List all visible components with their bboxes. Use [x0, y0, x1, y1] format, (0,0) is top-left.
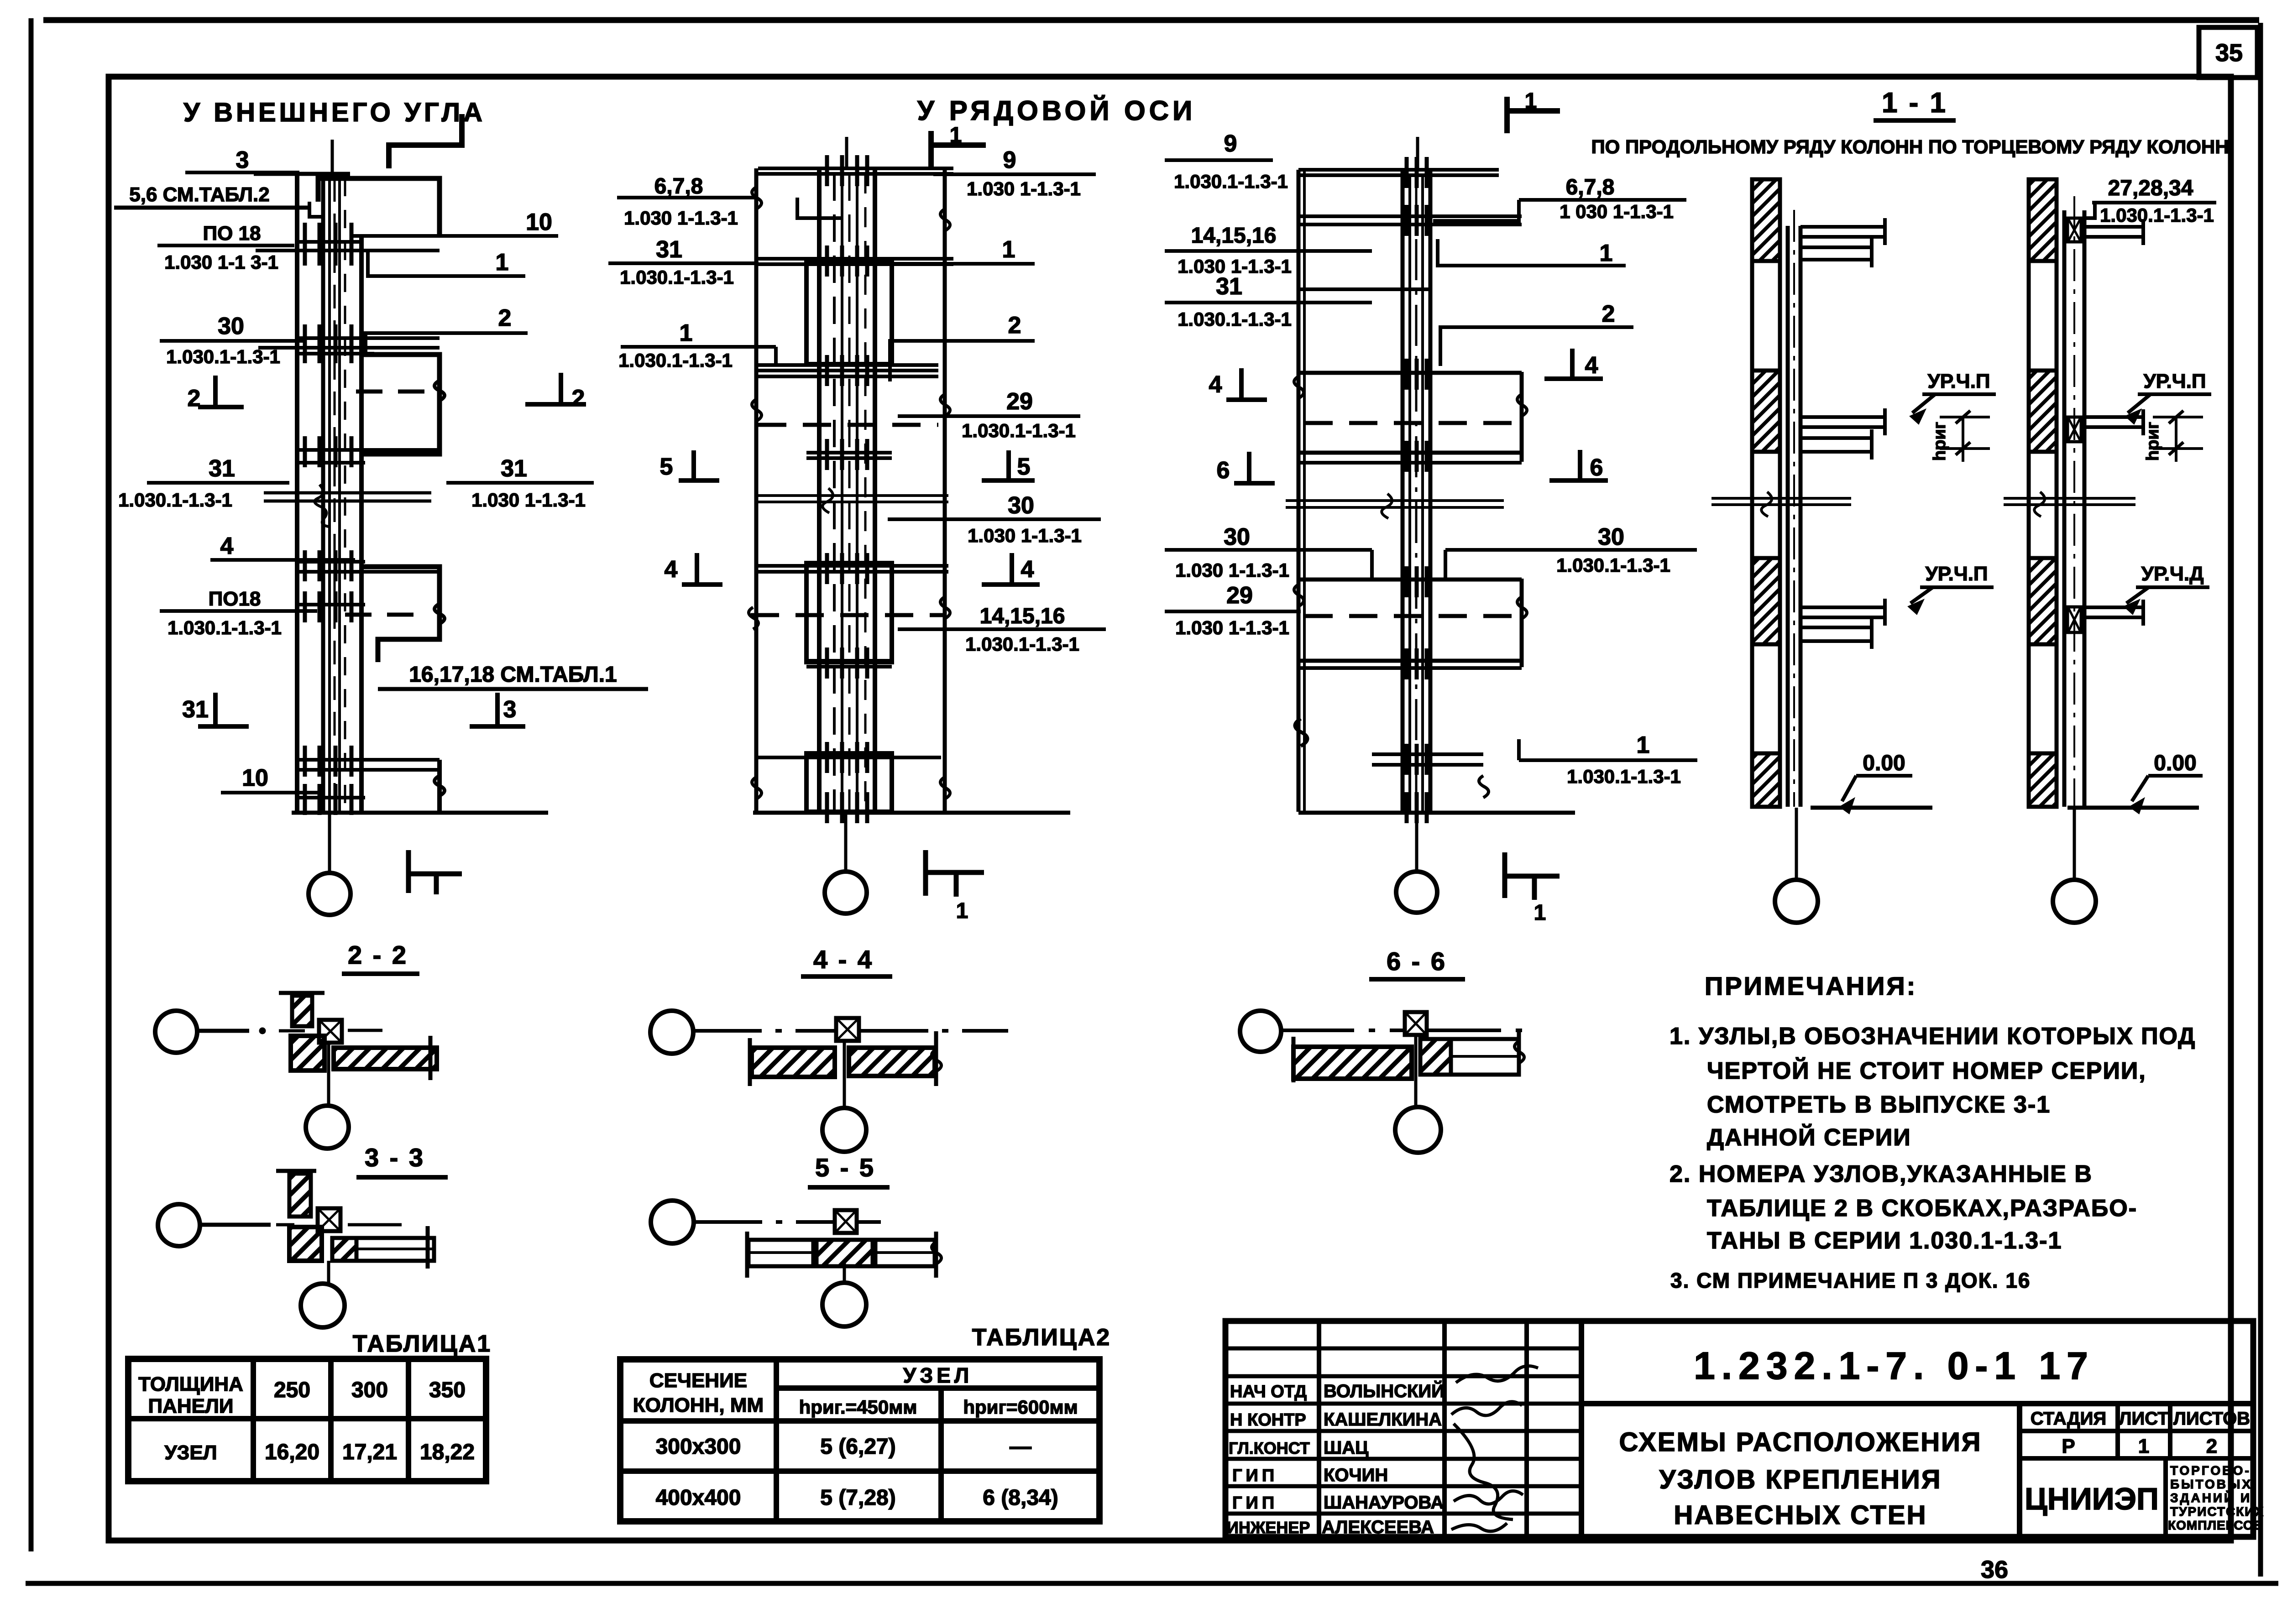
slab level B S1: [1800, 408, 1887, 460]
svg-text:КОЛОНН, ММ: КОЛОНН, ММ: [633, 1394, 764, 1416]
svg-text:1.030.1-1.3-1: 1.030.1-1.3-1: [620, 266, 734, 288]
column joint ticks: [305, 155, 1427, 823]
base line S1: [1811, 806, 1932, 810]
svg-text:УЗЕЛ: УЗЕЛ: [903, 1363, 973, 1387]
svg-text:350: 350: [429, 1378, 466, 1402]
axis bubble S1: [1775, 880, 1818, 923]
wall panel mid right P2: [364, 355, 440, 454]
svg-text:АЛЕКСЕЕВА: АЛЕКСЕЕВА: [1322, 1517, 1434, 1537]
leader 30 left D3: [1165, 524, 1372, 581]
svg-text:НАЧ ОТД: НАЧ ОТД: [1230, 1382, 1307, 1401]
svg-text:9: 9: [1224, 131, 1237, 157]
svg-text:18,22: 18,22: [420, 1440, 475, 1464]
break mark on P3 edge: [434, 604, 445, 624]
svg-text:ИНЖЕНЕР: ИНЖЕНЕР: [1227, 1518, 1310, 1537]
svg-text:6: 6: [1590, 454, 1603, 481]
axis bubble 5-5 bottom: [822, 1283, 866, 1326]
svg-text:4: 4: [1209, 371, 1222, 398]
svg-text:1: 1: [680, 320, 693, 346]
svg-text:14,15,16: 14,15,16: [1191, 224, 1277, 248]
svg-text:1.030.1-1.3-1: 1.030.1-1.3-1: [2100, 204, 2214, 226]
section mark 4 right D3: [1544, 349, 1603, 379]
bottom band D3: [1372, 752, 1483, 756]
leader 6,7,8 left: [617, 174, 842, 229]
wall panel hatched S1a: [1752, 179, 1780, 261]
band under block B2: [806, 659, 892, 663]
leader 1 right: [888, 236, 1035, 264]
column K1 left face: [295, 172, 299, 813]
svg-text:ПО18: ПО18: [209, 588, 261, 610]
svg-text:2. НОМЕРА УЗЛОВ,УКАЗАННЫЕ В: 2. НОМЕРА УЗЛОВ,УКАЗАННЫЕ В: [1670, 1161, 2093, 1187]
column K3 core: [1408, 173, 1411, 812]
svg-text:У ВНЕШНЕГО УГЛА: У ВНЕШНЕГО УГЛА: [183, 98, 486, 127]
svg-text:ПРИМЕЧАНИЯ:: ПРИМЕЧАНИЯ:: [1705, 971, 1917, 1000]
column S1 axis dash-dot: [1793, 210, 1795, 807]
panel end tick 2-2: [429, 1036, 433, 1080]
svg-text:31: 31: [656, 236, 682, 263]
slab stub level A S2: [2084, 219, 2145, 245]
leader 2 right D3: [1440, 301, 1633, 366]
label 2-2: [342, 940, 419, 974]
column K1 inner left face: [321, 172, 325, 813]
svg-text:6 (8,34): 6 (8,34): [983, 1486, 1058, 1510]
svg-text:17,21: 17,21: [342, 1440, 397, 1464]
label 5-5: [808, 1153, 890, 1187]
panel bar 5-5 hatched middle: [816, 1240, 873, 1266]
svg-text:16,17,18 СМ.ТАБЛ.1: 16,17,18 СМ.ТАБЛ.1: [409, 663, 617, 687]
axis break double line: [758, 494, 948, 497]
label 4-4: [801, 945, 892, 976]
svg-text:ШАНАУРОВА: ШАНАУРОВА: [1324, 1493, 1444, 1513]
svg-text:ЛИСТ: ЛИСТ: [2119, 1409, 2168, 1429]
node square 4-4: [836, 1018, 859, 1041]
label 16,17,18 см.табл.1: [378, 663, 648, 689]
leader 30 right D3: [1445, 524, 1697, 579]
svg-text:5: 5: [660, 454, 673, 480]
leader 14,15,16 right: [898, 604, 1106, 655]
panel bar 3-3 hatched part: [332, 1238, 356, 1261]
svg-text:10: 10: [242, 765, 268, 791]
panel bar 3-3 outline part: [356, 1238, 434, 1261]
label УР.Ч.Д lower right: [2124, 563, 2209, 615]
svg-text:ПО 18: ПО 18: [203, 222, 261, 245]
node square 3-3: [318, 1208, 340, 1231]
stem down 6-6: [1414, 1035, 1418, 1106]
panel bar 6-6 right hatched small: [1420, 1039, 1451, 1075]
label 5,6 см.табл.2: [114, 183, 309, 208]
svg-text:1.030 1-1.3-1: 1.030 1-1.3-1: [1175, 617, 1289, 638]
axis break line S2: [2004, 492, 2135, 517]
slab band level 4: [295, 560, 365, 564]
axis bubble 6-6 bottom: [1395, 1107, 1441, 1153]
svg-text:hриг.=450мм: hриг.=450мм: [799, 1396, 917, 1418]
svg-text:ШАЦ: ШАЦ: [1324, 1438, 1368, 1458]
band level 3: [758, 564, 948, 568]
axis leader 3-3: [200, 1223, 402, 1227]
wall panel hatched S1c: [1752, 558, 1780, 644]
frame outer right border: [2258, 23, 2263, 1577]
svg-text:29: 29: [1226, 582, 1253, 609]
svg-text:1.232.1-7. 0-1 17: 1.232.1-7. 0-1 17: [1694, 1344, 2094, 1387]
wide panel block B1: [806, 263, 892, 364]
band level 2: [758, 363, 938, 367]
end ticks 5-5: [745, 1232, 749, 1278]
end ticks 4-4: [748, 1038, 752, 1086]
dashed joint in block 2: [1304, 614, 1517, 618]
svg-text:ЗДАНИЙ И: ЗДАНИЙ И: [2170, 1490, 2251, 1505]
leader 14,15,16 left D3: [1165, 224, 1372, 277]
big block 1 D3: [1298, 371, 1522, 375]
svg-text:НАВЕСНЫХ СТЕН: НАВЕСНЫХ СТЕН: [1674, 1500, 1927, 1530]
wide panel block B2: [806, 563, 892, 662]
axis bubble 2-2 bottom: [306, 1106, 349, 1149]
column K2 core: [833, 173, 836, 812]
break mark on P2 edge: [434, 381, 445, 401]
panel face left long D3: [1297, 170, 1301, 812]
section mark 5 right: [982, 450, 1035, 480]
axis stem to bubble: [328, 813, 331, 873]
svg-text:4: 4: [1021, 556, 1034, 583]
svg-text:КОЧИН: КОЧИН: [1324, 1465, 1388, 1485]
svg-text:УР.Ч.П: УР.Ч.П: [2143, 370, 2206, 392]
elevation 0.00 left: [1839, 751, 1912, 814]
leader 9 left D3: [1165, 131, 1288, 192]
break mark bottom: [434, 776, 445, 796]
svg-text:31: 31: [1216, 273, 1242, 300]
svg-text:1.030.1-1.3-1: 1.030.1-1.3-1: [1556, 554, 1670, 576]
svg-text:30: 30: [1224, 524, 1250, 550]
svg-text:1.030.1-1.3-1: 1.030.1-1.3-1: [618, 350, 733, 371]
svg-text:ТАБЛИЦЕ 2 В СКОБКАХ,РАЗРАБО-: ТАБЛИЦЕ 2 В СКОБКАХ,РАЗРАБО-: [1707, 1195, 2137, 1222]
svg-text:6: 6: [1217, 457, 1230, 484]
node square 2-2: [319, 1020, 342, 1043]
svg-text:УР.Ч.П: УР.Ч.П: [1927, 370, 1990, 392]
node square 5-5: [835, 1210, 857, 1233]
axis break line S1: [1711, 492, 1851, 517]
svg-text:29: 29: [1006, 388, 1033, 415]
svg-text:2: 2: [498, 305, 512, 331]
svg-text:СТАДИЯ: СТАДИЯ: [2031, 1409, 2106, 1429]
slab band level 2: [295, 336, 440, 340]
wall stub vertical 3-3: [276, 1171, 316, 1217]
end ticks 6-6: [1292, 1037, 1296, 1082]
slab band level 3: [295, 448, 440, 452]
axis tick top D3: [1416, 137, 1419, 171]
label 31 left: [118, 455, 289, 511]
svg-text:1.030 1-1.3-1: 1.030 1-1.3-1: [624, 207, 738, 229]
slab stub level C S2: [2084, 600, 2145, 626]
leader 10 lower: [221, 765, 319, 793]
svg-text:3: 3: [503, 696, 517, 723]
node square 6-6: [1405, 1012, 1427, 1035]
svg-text:УЗЛОВ КРЕПЛЕНИЯ: УЗЛОВ КРЕПЛЕНИЯ: [1659, 1465, 1942, 1494]
leader 3: [185, 147, 299, 173]
svg-text:31: 31: [182, 696, 209, 723]
panel bar 2-2: [334, 1048, 437, 1069]
svg-text:1: 1: [1600, 240, 1613, 266]
svg-text:ДАННОЙ СЕРИИ: ДАННОЙ СЕРИИ: [1707, 1124, 1911, 1151]
svg-text:КОМПЛЕКСОВ: КОМПЛЕКСОВ: [2168, 1518, 2263, 1532]
label 30 left: [160, 313, 304, 367]
stem down 2-2: [327, 1043, 330, 1106]
axis stem S1: [1795, 808, 1798, 880]
svg-text:2: 2: [1008, 312, 1021, 339]
svg-text:1.030.1-1.3-1: 1.030.1-1.3-1: [962, 420, 1076, 441]
column K3 faces: [1401, 170, 1405, 812]
leader 31 left D3: [1165, 273, 1372, 330]
panel face left long: [754, 168, 759, 812]
base line D2: [753, 811, 1070, 815]
axis line 5-5: [694, 1220, 881, 1224]
slab line under P3: [295, 603, 365, 606]
dashed joint line: [758, 423, 938, 427]
label 31 right: [446, 455, 594, 511]
svg-text:hриг=600мм: hриг=600мм: [963, 1396, 1078, 1418]
band level 1 D3: [1298, 214, 1522, 218]
wall panel top right P1: [318, 178, 440, 235]
svg-text:2: 2: [1602, 301, 1615, 327]
svg-text:1.030 1-1.3-1: 1.030 1-1.3-1: [968, 525, 1082, 546]
bottom panel edge: [437, 760, 442, 812]
wall strip outline S2: [2029, 179, 2057, 807]
frame outer bottom border: [26, 1581, 2278, 1586]
panel face right long: [943, 168, 947, 812]
svg-text:5 (6,27): 5 (6,27): [820, 1435, 895, 1459]
svg-text:14,15,16: 14,15,16: [980, 604, 1065, 628]
svg-text:1: 1: [950, 123, 962, 147]
svg-text:1 - 1: 1 - 1: [1882, 87, 1947, 119]
base line S2: [2067, 806, 2199, 810]
svg-text:10: 10: [526, 209, 552, 235]
svg-text:2 - 2: 2 - 2: [348, 940, 408, 969]
anchor detail top S2: [2067, 218, 2081, 242]
svg-text:ЦНИИЭП: ЦНИИЭП: [2025, 1482, 2159, 1516]
panel bar 4-4 left: [752, 1048, 835, 1077]
svg-text:1.030.1-1.3-1: 1.030.1-1.3-1: [167, 617, 282, 638]
wall panel lower right P3: [364, 567, 440, 662]
svg-text:300х300: 300х300: [656, 1435, 741, 1459]
svg-text:ГИП: ГИП: [1232, 1466, 1278, 1485]
svg-text:4: 4: [665, 556, 678, 583]
leader 2 right: [890, 312, 1035, 381]
svg-text:4: 4: [1585, 352, 1598, 379]
svg-text:1: 1: [1002, 236, 1015, 263]
leader 30 right: [888, 492, 1101, 546]
wall panel hatched S2d: [2029, 753, 2057, 807]
svg-text:5,6 СМ.ТАБЛ.2: 5,6 СМ.ТАБЛ.2: [129, 183, 269, 206]
svg-text:ТОЛЩИНА: ТОЛЩИНА: [138, 1373, 243, 1395]
anchor detail low S2: [2067, 607, 2081, 632]
base line D3: [1298, 811, 1575, 815]
section flag bottom D1: [408, 850, 462, 894]
panel bar 6-6 right outline: [1451, 1039, 1519, 1075]
svg-text:3. СМ ПРИМЕЧАНИЕ П 3 ДОК. 16: 3. СМ ПРИМЕЧАНИЕ П 3 ДОК. 16: [1670, 1269, 2031, 1292]
svg-text:5: 5: [1017, 454, 1031, 480]
stem down 5-5: [843, 1262, 846, 1284]
band level 4: [758, 756, 941, 759]
leader 29 right: [898, 388, 1080, 441]
svg-text:0.00: 0.00: [1863, 751, 1905, 775]
axis leader 2-2: [197, 1028, 382, 1034]
svg-text:6,7,8: 6,7,8: [1566, 175, 1615, 199]
leader 1 left: [618, 320, 776, 371]
section mark 2 left: [188, 376, 244, 412]
short band 31 level: [1298, 287, 1430, 291]
axis bubble 6-6 left: [1240, 1011, 1281, 1052]
label 3-3: [356, 1143, 448, 1177]
svg-text:1.030.1-1.3-1: 1.030.1-1.3-1: [965, 633, 1079, 655]
leader 29 left D3: [1165, 582, 1301, 638]
column block 2-2: [291, 1036, 325, 1070]
section mark 6 right D3: [1549, 450, 1608, 481]
svg-text:ПАНЕЛИ: ПАНЕЛИ: [148, 1395, 233, 1417]
hand squiggle at joint: [314, 485, 329, 527]
axis bubble D1: [309, 873, 351, 915]
svg-text:1 030 1-1.3-1: 1 030 1-1.3-1: [1560, 201, 1674, 222]
section flag top D1: [389, 114, 462, 168]
svg-text:ЛИСТОВ: ЛИСТОВ: [2173, 1409, 2250, 1429]
axis bubble D2: [825, 872, 867, 914]
svg-text:4 - 4: 4 - 4: [813, 945, 874, 974]
svg-text:УЗЕЛ: УЗЕЛ: [164, 1441, 217, 1464]
svg-text:1.030.1-1.3-1: 1.030.1-1.3-1: [1567, 766, 1681, 787]
leader 4: [210, 533, 355, 560]
svg-text:1.030 1-1.3-1: 1.030 1-1.3-1: [471, 489, 586, 511]
label ПО 18 upper: [157, 222, 294, 273]
svg-text:4: 4: [220, 533, 234, 559]
panel end tick 3-3: [426, 1226, 430, 1269]
svg-text:30: 30: [218, 313, 244, 339]
axis bubble S2: [2053, 880, 2096, 923]
label 27,28,34: [2085, 176, 2216, 226]
svg-text:300: 300: [351, 1378, 388, 1402]
column S1 faces: [1786, 226, 1790, 807]
panel bar 5-5 right outline: [875, 1240, 935, 1266]
heading: 1-1: [1874, 87, 1956, 120]
svg-text:5 - 5: 5 - 5: [815, 1153, 875, 1182]
svg-text:30: 30: [1598, 524, 1624, 550]
wall panel hatched S1b: [1752, 371, 1780, 452]
panel face right segments D3: [1520, 372, 1524, 462]
svg-text:ГИП: ГИП: [1232, 1493, 1278, 1513]
svg-text:400х400: 400х400: [656, 1486, 741, 1510]
svg-text:3: 3: [236, 147, 249, 173]
svg-text:ТАНЫ В СЕРИИ 1.030.1-1.3-1: ТАНЫ В СЕРИИ 1.030.1-1.3-1: [1707, 1227, 2062, 1254]
svg-text:СХЕМЫ РАСПОЛОЖЕНИЯ: СХЕМЫ РАСПОЛОЖЕНИЯ: [1619, 1427, 1982, 1457]
svg-text:УР.Ч.П: УР.Ч.П: [1925, 563, 1988, 585]
svg-text:У РЯДОВОЙ ОСИ: У РЯДОВОЙ ОСИ: [917, 95, 1196, 126]
column block 3-3: [289, 1227, 322, 1261]
axis break line D3: [1286, 499, 1504, 502]
svg-text:ТУРИСТСКИХ: ТУРИСТСКИХ: [2170, 1504, 2264, 1519]
leader 31 left: [608, 236, 759, 288]
wall strip outline S1: [1752, 179, 1780, 807]
frame outer top border: [43, 17, 2259, 23]
leader 9 right: [933, 147, 1096, 199]
section mark 4 right: [982, 553, 1040, 585]
break mark 5-5: [932, 1242, 941, 1264]
sheet number box 35: [2199, 27, 2257, 78]
axis bubble 3-3 left: [158, 1204, 200, 1246]
svg-text:6,7,8: 6,7,8: [654, 174, 703, 198]
svg-text:35: 35: [2215, 39, 2243, 67]
band under block B1: [806, 451, 892, 454]
svg-text:2: 2: [2206, 1435, 2217, 1457]
step under table label: [309, 202, 325, 217]
leader 1: [368, 249, 525, 276]
svg-text:1: 1: [1637, 732, 1650, 758]
leader 2: [366, 305, 528, 355]
dashed joint in block 1: [1304, 421, 1517, 425]
svg-text:36: 36: [1981, 1556, 2008, 1583]
svg-text:1: 1: [1525, 89, 1537, 113]
label ПО18 lower: [160, 588, 317, 638]
svg-text:31: 31: [209, 455, 235, 482]
slab level A S1: [1800, 218, 1887, 267]
svg-text:1: 1: [2138, 1435, 2149, 1457]
svg-text:УР.Ч.Д: УР.Ч.Д: [2141, 563, 2204, 585]
axis bubble 5-5 left: [651, 1201, 694, 1243]
svg-text:1.030 1-1.3-1: 1.030 1-1.3-1: [967, 178, 1081, 199]
svg-text:1: 1: [496, 249, 509, 276]
svg-text:16,20: 16,20: [265, 1440, 319, 1464]
section flag bottom D2: [926, 850, 984, 923]
svg-text:1. УЗЛЫ,В ОБОЗНАЧЕНИИ КОТОРЫХ: 1. УЗЛЫ,В ОБОЗНАЧЕНИИ КОТОРЫХ ПОД: [1670, 1023, 2196, 1050]
column K1 core lines: [328, 178, 331, 813]
axis stem D3: [1415, 813, 1418, 871]
big block 2 D3: [1298, 578, 1522, 582]
label УР.Ч.П upper right: [2125, 370, 2211, 424]
svg-text:1.030 1-1.3-1: 1.030 1-1.3-1: [1175, 559, 1289, 581]
column S2 axis dash-dot: [2073, 196, 2075, 807]
svg-text:—: —: [1010, 1435, 1031, 1459]
wall panel hatched S2b: [2029, 371, 2057, 452]
svg-text:1: 1: [1534, 901, 1546, 925]
wall panel hatched S2c: [2029, 558, 2057, 644]
svg-text:3 - 3: 3 - 3: [365, 1143, 425, 1172]
axis bubble 4-4 left: [650, 1011, 693, 1054]
axis line 4-4: [693, 1029, 1008, 1033]
svg-text:1.030.1-1.3-1: 1.030.1-1.3-1: [1178, 308, 1292, 330]
svg-text:ТАБЛИЦА2: ТАБЛИЦА2: [972, 1324, 1111, 1351]
dashed joint in P2: [356, 390, 426, 394]
break mark 6-6: [1514, 1041, 1524, 1063]
column K2 faces: [817, 168, 822, 812]
svg-text:ТОРГОВО-: ТОРГОВО-: [2170, 1463, 2251, 1478]
svg-text:КАШЕЛКИНА: КАШЕЛКИНА: [1324, 1410, 1442, 1430]
stem down 4-4: [843, 1041, 846, 1108]
section flag bottom D3: [1505, 852, 1560, 925]
svg-text:9: 9: [1003, 147, 1016, 173]
section flag top D2: [931, 123, 986, 168]
section mark 6 left D3: [1217, 452, 1275, 484]
panel bar 5-5 left outline: [748, 1240, 813, 1266]
frame outer left border: [29, 18, 34, 1551]
svg-text:ГЛ.КОНСТ: ГЛ.КОНСТ: [1229, 1439, 1310, 1457]
leader 1 right bottom D3: [1519, 732, 1697, 787]
elevation 0.00 right: [2129, 751, 2203, 814]
base line: [292, 811, 548, 815]
section flag top D3: [1507, 89, 1560, 133]
axis line 6-6: [1281, 1029, 1534, 1032]
section mark 4 left: [665, 553, 722, 585]
label УР.Ч.П lower left: [1908, 563, 1994, 615]
svg-text:Н КОНТР: Н КОНТР: [1230, 1410, 1306, 1430]
slab band level 5: [295, 758, 440, 762]
section mark 3 right: [470, 693, 525, 726]
break marks on panel faces: [752, 187, 761, 209]
axis bubble D3: [1396, 872, 1437, 913]
